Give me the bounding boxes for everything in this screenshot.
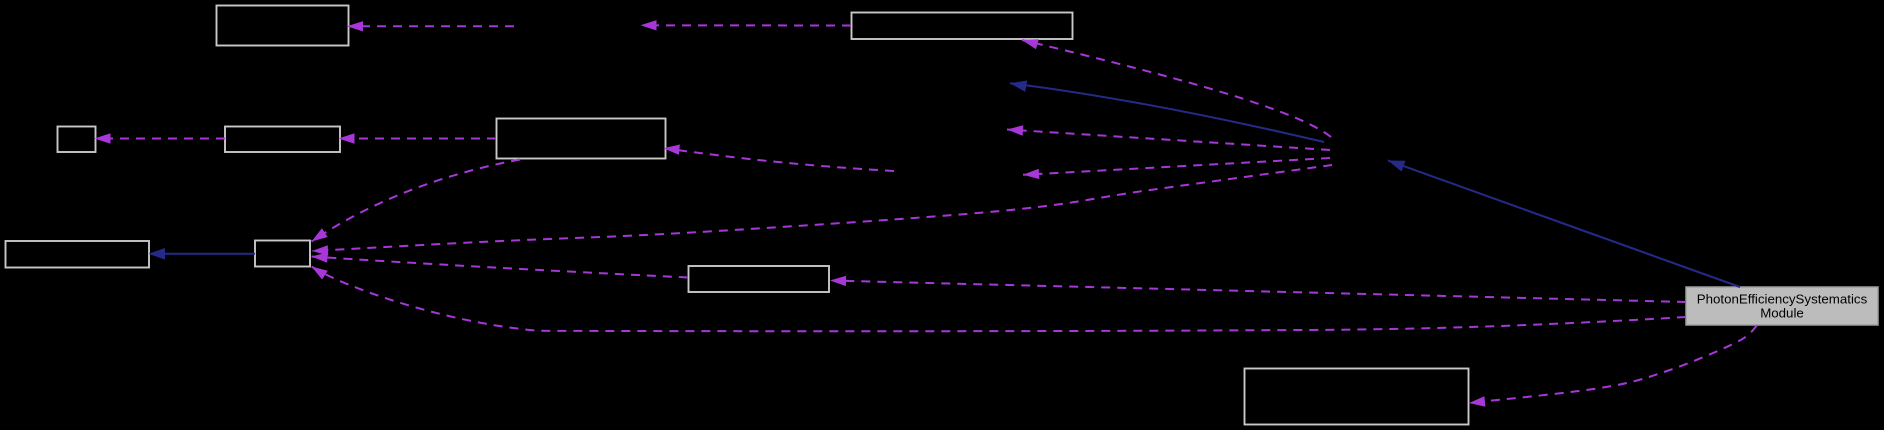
edge E13 blue inheritance arrow from B9 to hub node	[1388, 161, 1740, 288]
edge E12 dashed curve from B9 bottom to B10	[1469, 326, 1757, 407]
node B2 (top-middle class box)	[852, 13, 1073, 40]
edge E8 dashed curve from B5 bottom to B7 top corner	[312, 160, 521, 242]
edge E7 dashed arrow from invisible N3 to B5 right	[664, 145, 895, 172]
node B1 (top-left class box)	[217, 6, 349, 46]
edge E6 dashed long curve from hub node to B7	[312, 165, 1332, 256]
node B10 (bottom-right tall box)	[1245, 369, 1469, 425]
svg-text:Module: Module	[1760, 306, 1804, 321]
node B9 PhotonEfficiencySystematicsModule (highlighted)	[1686, 287, 1878, 325]
edge E3 dashed curve from hub node to B2 bottom	[1022, 39, 1331, 137]
edge E4 dashed arrow to invisible node N2	[1007, 125, 1330, 150]
node B8 (center-bottom box)	[689, 266, 830, 292]
edge E11 dashed long sweeping curve from B9 to B7 bottom corner	[312, 267, 1687, 332]
node B7 (small hub box)	[255, 241, 310, 267]
node B4 (left-middle box)	[225, 127, 340, 153]
edge E9 dashed arrow from B8 to B7	[312, 252, 689, 277]
node B5 (two-line box)	[497, 119, 666, 159]
edge E1 dashed arrow into B1	[347, 21, 514, 31]
node B6 (lower-left box)	[6, 241, 150, 268]
node B3 (small left box)	[58, 127, 96, 153]
edge E5 dashed arrow to invisible node N3	[1023, 158, 1330, 179]
svg-text:PhotonEfficiencySystematics: PhotonEfficiencySystematics	[1697, 292, 1868, 307]
edge E2 dashed arrow from B2 left	[641, 20, 852, 30]
edge E14 blue inheritance arrow from hub node to invisible N1	[1010, 81, 1324, 143]
edge E10 dashed long arrow from B9 to B8	[830, 276, 1686, 302]
edge E15 dashed arrow from B4 to B3	[95, 133, 226, 143]
edge E17 blue inheritance arrow from B7 to B6	[149, 248, 256, 260]
edge E16 dashed arrow from B5 to B4	[339, 133, 497, 143]
